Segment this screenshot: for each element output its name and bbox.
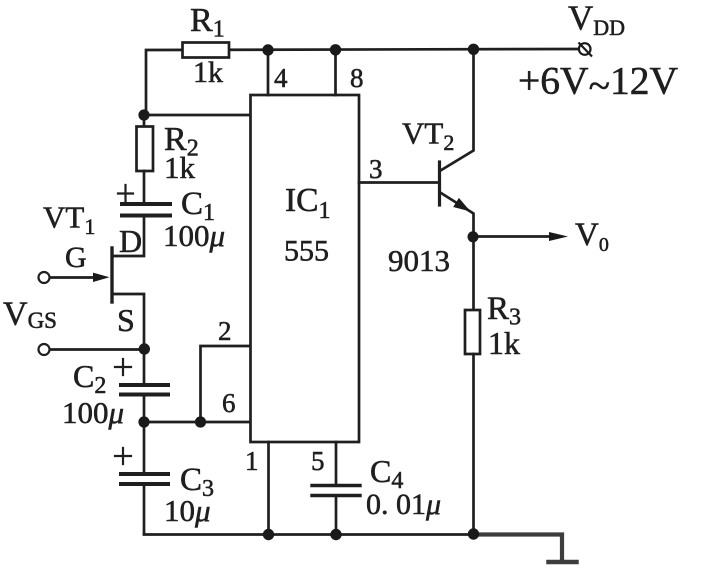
svg-text:555: 555 [284,235,329,268]
svg-text:9013: 9013 [388,243,450,278]
svg-text:6: 6 [222,388,236,418]
svg-text:10μ: 10μ [164,493,211,528]
svg-text:1k: 1k [164,150,196,185]
svg-text:4: 4 [274,63,288,93]
svg-text:S: S [117,302,135,338]
svg-text:5: 5 [311,446,325,476]
svg-text:8: 8 [350,63,364,93]
svg-text:3: 3 [369,154,383,184]
svg-text:1k: 1k [193,56,223,89]
svg-text:2: 2 [218,316,232,346]
svg-text:D: D [119,223,142,259]
svg-text:100μ: 100μ [163,218,225,253]
svg-text:0. 01μ: 0. 01μ [366,488,441,521]
svg-text:G: G [65,241,87,274]
svg-text:1k: 1k [488,325,520,361]
svg-text:+6V~12V: +6V~12V [518,59,678,108]
svg-text:100μ: 100μ [62,395,124,430]
svg-text:1: 1 [245,446,259,476]
